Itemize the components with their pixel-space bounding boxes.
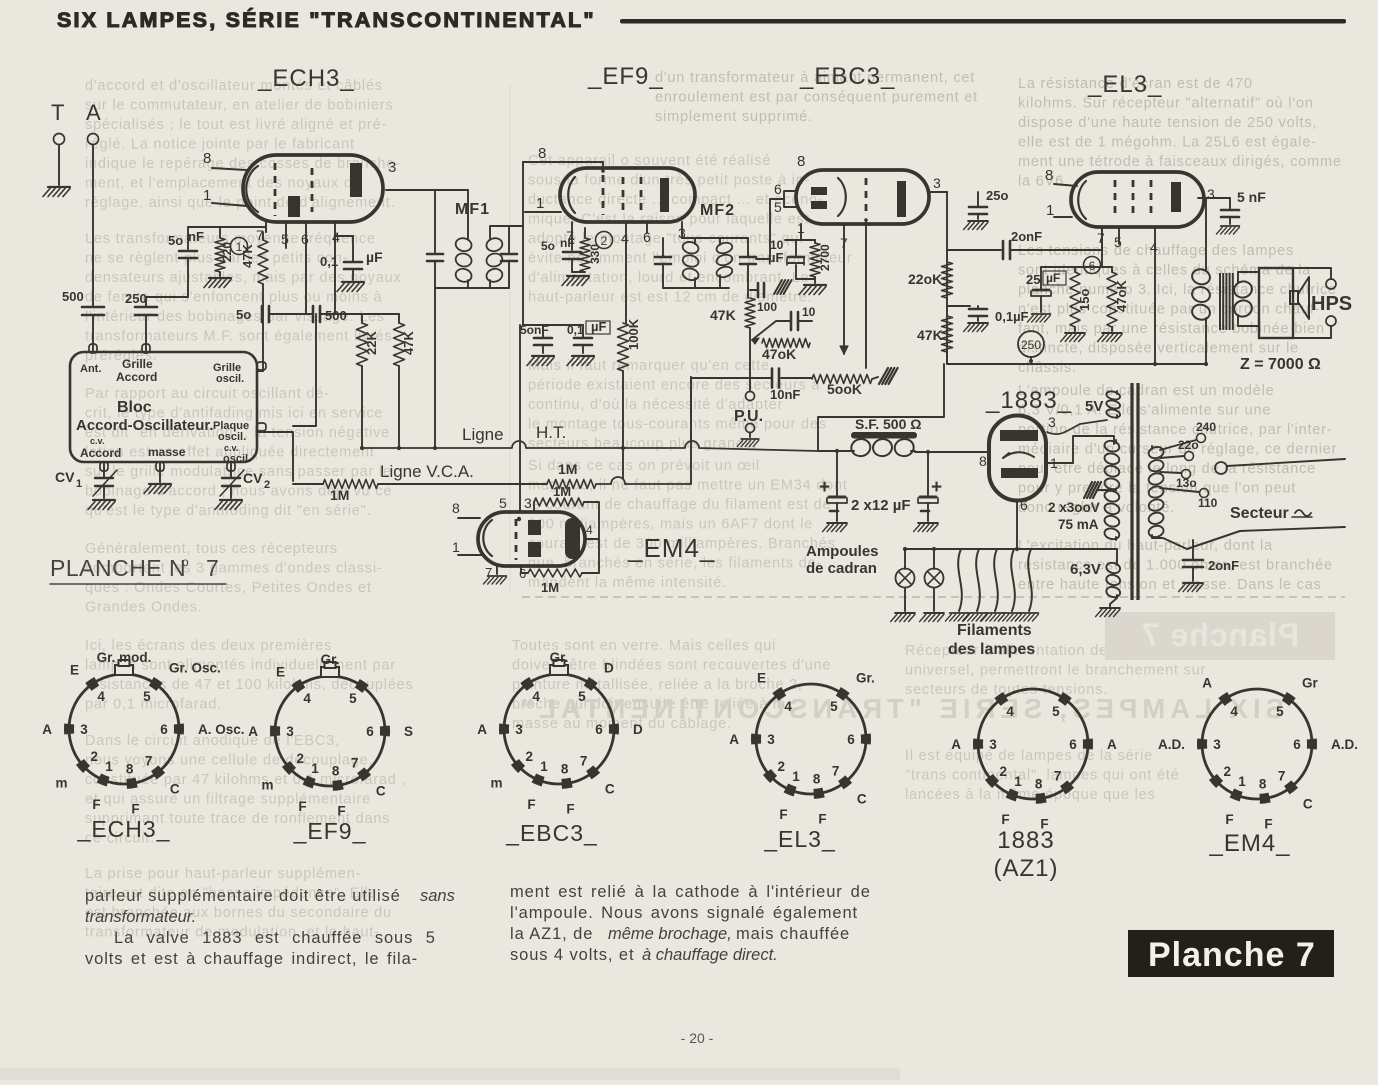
svg-text:0,1µF: 0,1µF	[995, 309, 1029, 324]
svg-text:330: 330	[588, 244, 602, 264]
wire AVC vertical	[690, 377, 692, 484]
svg-text:8: 8	[1045, 167, 1053, 184]
wire MF2 bottom	[663, 287, 729, 289]
svg-text:parleur supplémentaire doit êt: parleur supplémentaire doit être utilisé	[85, 887, 401, 905]
pin 3 wire to 5V winding	[1047, 420, 1107, 434]
svg-text:8: 8	[1259, 777, 1267, 792]
socket key	[115, 665, 133, 675]
mains switch	[1152, 538, 1187, 549]
resistor 470K EL3	[1107, 272, 1117, 327]
socket pin	[1284, 696, 1292, 702]
svg-text:1: 1	[452, 539, 460, 555]
pin 3 wire	[681, 222, 683, 238]
electrolytic 12uF no1	[836, 451, 838, 495]
svg-text:110: 110	[1198, 496, 1218, 510]
svg-text:0,1: 0,1	[320, 254, 338, 269]
pin 1 wire to HV winding	[1046, 436, 1114, 463]
svg-text:la 6V6.: la 6V6.	[1018, 174, 1069, 190]
svg-text:elle est de 1 mégohm. La: elle est de 1 mégohm. La 25L6 est égale-	[1018, 135, 1317, 151]
wire plaque oscil	[257, 432, 293, 481]
svg-text:S.F. 500 Ω: S.F. 500 Ω	[855, 416, 921, 432]
wire	[818, 364, 944, 451]
transformer MF2 primary coil	[694, 238, 696, 241]
svg-text:10: 10	[802, 305, 816, 319]
wire	[490, 226, 523, 237]
wire MF1 bottom	[435, 287, 509, 289]
svg-text:µF: µF	[1046, 271, 1060, 285]
svg-text:simplement supprimé.: simplement supprimé.	[655, 109, 813, 125]
svg-text:T: T	[51, 100, 64, 125]
svg-text:+: +	[819, 477, 830, 498]
ground	[1061, 333, 1085, 342]
wire	[584, 502, 599, 539]
svg-text:c.v.: c.v.	[90, 436, 104, 446]
svg-text:kilohms. Sur récepteur "altern: kilohms. Sur récepteur "alternatif" où l…	[1018, 96, 1314, 112]
socket pin	[989, 777, 996, 785]
wire	[92, 315, 94, 352]
svg-text:_ECH3_: _ECH3_	[77, 816, 171, 842]
wire ECH3 plate	[386, 189, 468, 191]
capacitor 0,1uF decoupling	[947, 305, 970, 307]
svg-text:Ant.: Ant.	[80, 363, 101, 375]
svg-text:8: 8	[332, 764, 340, 779]
svg-text:A.D.: A.D.	[1158, 737, 1185, 752]
ground	[964, 221, 988, 230]
svg-text:A: A	[86, 100, 101, 125]
svg-text:47K: 47K	[917, 327, 943, 343]
svg-text:- 20 -: - 20 -	[681, 1030, 714, 1046]
wire AVC junction	[690, 377, 692, 448]
svg-text:même brochage,: même brochage,	[608, 925, 732, 943]
grid wire EL3	[1101, 227, 1103, 250]
svg-text:_ECH3_: _ECH3_	[257, 65, 355, 92]
svg-text:des lampes: des lampes	[948, 641, 1035, 658]
ground	[1015, 613, 1038, 621]
column divider line	[509, 85, 511, 590]
socket pin	[305, 780, 314, 784]
cathode node wire	[1041, 266, 1112, 268]
socket pin	[295, 683, 303, 689]
svg-text:5: 5	[774, 199, 782, 215]
svg-text:CV: CV	[55, 469, 75, 485]
svg-text:4: 4	[1006, 704, 1014, 719]
svg-text:500: 500	[62, 289, 84, 304]
svg-text:5: 5	[349, 691, 357, 706]
socket pin	[80, 762, 87, 770]
pin 6 wire	[305, 222, 307, 313]
wire screens node	[335, 313, 399, 315]
svg-text:2: 2	[91, 749, 99, 764]
terminal P.U.	[746, 392, 755, 401]
ground	[1096, 608, 1120, 617]
svg-text:8: 8	[561, 762, 569, 777]
svg-text:2700: 2700	[818, 244, 832, 271]
svg-text:Gr.: Gr.	[856, 670, 875, 685]
svg-text:nF: nF	[560, 236, 575, 250]
socket pin	[333, 785, 343, 786]
svg-text:1M: 1M	[330, 487, 349, 503]
capacitor 100 coupling	[790, 312, 793, 330]
resistor 47K oscillator grid	[258, 240, 268, 284]
socket key	[321, 667, 339, 677]
resistor 47K diode load	[745, 298, 755, 328]
svg-text:m: m	[261, 778, 273, 793]
svg-text:1883: 1883	[997, 827, 1054, 854]
svg-text:3: 3	[933, 175, 941, 191]
svg-text:6: 6	[1089, 259, 1096, 273]
svg-text:dispose d'une haute tension: dispose d'une haute tension de 250 volts…	[1018, 115, 1317, 131]
svg-text:C: C	[857, 792, 867, 807]
svg-text:réglage, ainsi que le point de: réglage, ainsi que le point de d'alignem…	[85, 195, 395, 211]
svg-text:2: 2	[1000, 764, 1008, 779]
wire with hop	[596, 477, 691, 484]
svg-text:6: 6	[1069, 737, 1077, 752]
svg-text:CV: CV	[243, 470, 263, 486]
svg-text:6: 6	[1020, 497, 1028, 513]
svg-text:m: m	[490, 776, 502, 791]
svg-text:5: 5	[281, 231, 289, 247]
svg-text:entre haute tension et masse.: entre haute tension et masse. Dans le ca…	[1018, 577, 1322, 593]
socket circle	[756, 684, 866, 794]
svg-text:C: C	[1303, 797, 1313, 812]
svg-text:6: 6	[1293, 737, 1301, 752]
svg-text:pour y prendre la tension: pour y prendre la tension que l'on peut	[1018, 481, 1296, 497]
power transformer core	[1130, 383, 1133, 600]
socket pin	[286, 764, 293, 772]
svg-text:_EL3_: _EL3_	[1087, 71, 1162, 98]
wire	[946, 352, 948, 364]
ground	[43, 187, 70, 197]
svg-text:F: F	[92, 797, 100, 812]
svg-text:Grille: Grille	[122, 357, 153, 371]
svg-text:4: 4	[532, 689, 540, 704]
svg-text:F: F	[818, 811, 826, 826]
HV center tap ground	[1098, 489, 1116, 491]
svg-text:PLANCHE N: PLANCHE N	[50, 555, 186, 581]
svg-text:Filaments: Filaments	[957, 622, 1032, 639]
pin 8 wire	[458, 517, 480, 519]
resistor 2700	[810, 243, 820, 277]
svg-text:4: 4	[586, 523, 593, 537]
svg-text:47K: 47K	[401, 331, 416, 355]
svg-text:1: 1	[203, 187, 211, 204]
mirrored show-through headline	[516, 693, 1284, 724]
svg-text:Secteur: Secteur	[1230, 505, 1289, 522]
svg-text:masse: masse	[148, 445, 186, 459]
ground	[1216, 226, 1239, 234]
bloc terminal pins	[89, 344, 97, 353]
svg-text:5V: 5V	[1085, 398, 1103, 415]
circled 1	[231, 238, 248, 255]
svg-text:100K: 100K	[626, 318, 641, 350]
svg-text:Gr.: Gr.	[321, 652, 340, 667]
svg-text:5: 5	[1052, 704, 1060, 719]
svg-text:500: 500	[325, 308, 347, 323]
socket pin	[524, 681, 532, 687]
socket pin	[1287, 784, 1295, 790]
pin 7 wire	[571, 222, 573, 250]
svg-text:1: 1	[1014, 774, 1022, 789]
svg-text:A: A	[729, 732, 739, 747]
capacitor 10nF AVC	[771, 369, 774, 388]
wire	[320, 313, 335, 315]
svg-text:1M: 1M	[558, 461, 577, 477]
wire to output transformer	[1205, 198, 1207, 268]
transformer MF1 primary coil	[467, 190, 469, 237]
svg-text:8: 8	[797, 153, 805, 170]
filament drop wire	[994, 549, 998, 611]
svg-text:5: 5	[143, 689, 151, 704]
ground	[823, 523, 847, 532]
tube ECH3	[243, 155, 383, 222]
svg-text:D: D	[633, 722, 643, 737]
wire AVC	[691, 377, 772, 379]
potentiometer 500K	[812, 375, 872, 384]
svg-text:47K: 47K	[240, 244, 255, 268]
output transformer primary	[1190, 267, 1211, 286]
svg-text:ment, et l'emplacement d: ment, et l'emplacement des noyaux de	[85, 176, 362, 192]
svg-text:oscil.: oscil.	[218, 431, 246, 443]
svg-text:6: 6	[366, 724, 374, 739]
svg-text:1: 1	[1046, 202, 1054, 219]
svg-text:3: 3	[80, 722, 88, 737]
5V winding	[1105, 390, 1120, 401]
svg-text:_EF9_: _EF9_	[293, 818, 367, 844]
resistor 47K decoupling	[942, 316, 953, 352]
tube EL3	[1071, 172, 1204, 227]
svg-text:6: 6	[160, 722, 168, 737]
svg-text:_EF9_: _EF9_	[587, 63, 664, 90]
svg-text:F: F	[527, 797, 535, 812]
circled 6	[1084, 257, 1101, 274]
svg-text:la AZ1, de: la AZ1, de	[510, 925, 593, 943]
svg-text:E: E	[757, 670, 766, 685]
svg-text:2onF: 2onF	[1208, 558, 1239, 573]
socket pin	[1060, 696, 1068, 702]
svg-text:47oK: 47oK	[762, 346, 796, 362]
svg-text:0,1: 0,1	[567, 323, 584, 337]
ground	[337, 282, 364, 292]
svg-text:8: 8	[203, 150, 211, 167]
pin 1 wire	[458, 554, 482, 556]
svg-text:A: A	[1202, 675, 1212, 690]
svg-text:µF: µF	[366, 249, 383, 265]
socket pin	[360, 771, 368, 777]
svg-text:MF1: MF1	[455, 201, 490, 218]
svg-text:1: 1	[540, 759, 548, 774]
svg-text:240: 240	[1196, 420, 1216, 434]
socket pin	[1197, 739, 1207, 749]
wire	[434, 288, 436, 448]
wire	[92, 145, 94, 306]
svg-text:6: 6	[301, 231, 309, 247]
socket pin	[99, 778, 108, 782]
svg-text:1: 1	[792, 769, 800, 784]
svg-text:1: 1	[1238, 774, 1246, 789]
resistor 150	[1070, 272, 1080, 327]
resistor 22oK	[942, 262, 953, 298]
svg-text:ment est relié à la cathode à: ment est relié à la cathode à l'intérieu…	[510, 883, 871, 901]
schematic bottom dashed border	[522, 596, 1345, 598]
transformer MF2 secondary coil	[715, 241, 733, 255]
svg-text:HPS: HPS	[1311, 293, 1352, 315]
svg-text:100: 100	[757, 300, 777, 314]
svg-text:F: F	[1225, 812, 1233, 827]
svg-text:1: 1	[76, 478, 82, 490]
tube 1883	[989, 416, 1046, 501]
socket pin	[515, 762, 522, 770]
svg-text:4: 4	[332, 229, 340, 245]
H.T. rail from choke	[818, 450, 850, 452]
svg-text:universel, permettront le br: universel, permettront le branchement su…	[905, 663, 1206, 679]
socket pin	[998, 696, 1006, 702]
svg-text:et qui assure un filtrage: et qui assure un filtrage supplémentaire	[85, 792, 371, 808]
tube EM4	[478, 512, 585, 566]
ground	[914, 523, 938, 532]
pin 4 wire	[625, 222, 627, 323]
svg-text:m: m	[55, 776, 67, 791]
svg-text:5onF: 5onF	[520, 323, 549, 337]
header rule	[620, 19, 1346, 24]
svg-text:22o: 22o	[1178, 438, 1199, 452]
socket pin	[751, 734, 761, 744]
speaker terminals	[1293, 268, 1331, 279]
resistor 1M vca2	[547, 480, 596, 489]
capacitor MF2 primary	[662, 238, 664, 256]
svg-text:5: 5	[1276, 704, 1284, 719]
selector contact	[1215, 462, 1227, 474]
junction dots	[360, 446, 364, 450]
ground	[1098, 333, 1122, 342]
wire	[1110, 598, 1117, 608]
svg-text:(AZ1): (AZ1)	[994, 855, 1059, 882]
svg-text:Mais il faut remarquer qu': Mais il faut remarquer qu'en cette	[528, 358, 770, 374]
ground	[981, 613, 1004, 621]
svg-text:F: F	[1001, 812, 1009, 827]
svg-text:A: A	[42, 722, 52, 737]
svg-text:volts et est à chauffage indir: volts et est à chauffage indirect, le fi…	[85, 950, 418, 968]
svg-text:2 x3ooV: 2 x3ooV	[1048, 500, 1100, 515]
socket pin	[589, 769, 597, 775]
svg-text:transformateur.: transformateur.	[85, 908, 196, 926]
svg-text:25o: 25o	[986, 188, 1008, 203]
svg-text:1M: 1M	[553, 484, 571, 499]
svg-text:distincte, disposée vertic: distincte, disposée verticalement sur le	[1018, 341, 1299, 357]
svg-text:1: 1	[105, 759, 113, 774]
filament drop wire	[976, 549, 980, 611]
svg-text:47oK: 47oK	[1114, 280, 1129, 312]
electrolytic 12uF no2	[927, 452, 929, 495]
svg-text:25: 25	[1026, 272, 1040, 287]
svg-text:sur le commutateur, en atelier: sur le commutateur, en atelier de bobini…	[85, 98, 393, 114]
resistor 350	[584, 228, 586, 238]
svg-text:5: 5	[499, 495, 507, 511]
grid wire below tube	[865, 222, 867, 368]
pin 4 wire	[334, 222, 336, 313]
wire	[622, 371, 624, 448]
svg-text:A: A	[1107, 737, 1117, 752]
socket pin	[1232, 793, 1241, 797]
wire	[146, 297, 188, 307]
pin 6 wire	[520, 566, 522, 573]
svg-text:ques : Ondes Courtes, Peti: ques : Ondes Courtes, Petites Ondes et	[85, 580, 372, 596]
ground	[562, 276, 589, 286]
socket pin	[776, 691, 784, 697]
socket pin	[1213, 777, 1220, 785]
svg-text:transformateurs M.F. sont é: transformateurs M.F. sont également livr…	[85, 329, 393, 345]
wire	[749, 328, 751, 390]
resistor 470K	[762, 339, 810, 348]
socket pin	[814, 793, 824, 794]
svg-text:_EBC3_: _EBC3_	[505, 820, 598, 846]
svg-text:_1883_: _1883_	[985, 387, 1072, 414]
svg-text:3: 3	[1207, 186, 1215, 202]
svg-text:8: 8	[126, 762, 134, 777]
svg-text:8: 8	[538, 145, 546, 162]
socket pin	[380, 726, 390, 736]
ground	[204, 278, 231, 288]
long wire EF9 to EM4	[519, 325, 521, 512]
socket pin	[586, 681, 594, 687]
svg-text:fant, mais par une résista: fant, mais par une résistance bobinée bi…	[1018, 321, 1325, 337]
socket pin	[609, 724, 619, 734]
resistor 1M grid	[534, 498, 584, 506]
svg-text:SIX LAMPES, SÉRIE "TRANSCONTIN: SIX LAMPES, SÉRIE "TRANSCONTINENTAL"	[516, 693, 1284, 724]
svg-text:sans: sans	[420, 887, 455, 905]
svg-text:E: E	[70, 662, 79, 677]
svg-text:5o: 5o	[541, 239, 555, 253]
svg-text:3: 3	[1213, 737, 1221, 752]
socket key	[550, 665, 568, 675]
svg-text:75 mA: 75 mA	[1058, 517, 1099, 532]
socket pin	[1063, 784, 1071, 790]
svg-text:1M: 1M	[541, 580, 559, 595]
svg-text:5o: 5o	[168, 233, 183, 248]
svg-text:Accord-Oscillateur.: Accord-Oscillateur.	[76, 417, 214, 434]
speaker HPS	[1259, 268, 1293, 338]
svg-text:7: 7	[1278, 769, 1286, 784]
svg-text:Gr. mod.: Gr. mod.	[97, 650, 152, 665]
socket pin	[1008, 793, 1017, 797]
svg-text:Gr.: Gr.	[550, 650, 569, 665]
svg-text:réglé. La notice jointe pa: réglé. La notice jointe par le fabricant	[85, 137, 355, 153]
svg-text:A: A	[477, 722, 487, 737]
svg-text:4: 4	[621, 230, 629, 246]
svg-text:8: 8	[1035, 777, 1043, 792]
svg-text:2: 2	[264, 479, 270, 491]
svg-text:portion de la résistance chutr: portion de la résistance chutrice, par l…	[1018, 422, 1332, 438]
ground	[144, 484, 171, 494]
ground	[1179, 583, 1203, 592]
svg-text:SIX LAMPES, SÉRIE "TRANSCONTIN: SIX LAMPES, SÉRIE "TRANSCONTINENTAL"	[57, 7, 596, 32]
svg-text:spécialisés ; le tout est livr: spécialisés ; le tout est livré aligné e…	[85, 117, 387, 133]
pin 3 plate wire	[1198, 197, 1230, 199]
wire	[682, 237, 748, 239]
svg-text:sous 4 volts, et: sous 4 volts, et	[510, 946, 634, 964]
svg-text:MF2: MF2	[700, 202, 735, 219]
socket pin	[154, 769, 162, 775]
resistor 1M target	[521, 572, 528, 574]
pin 3 plate wire	[929, 191, 947, 193]
filament drop wire	[1011, 549, 1015, 611]
svg-text:5: 5	[578, 689, 586, 704]
svg-text:A: A	[248, 724, 258, 739]
svg-text:n'est plus constituée par: n'est plus constituée par un cordon chau…	[1018, 302, 1320, 318]
wire 22K	[361, 366, 363, 448]
svg-text:le courant de chauffage du fil: le courant de chauffage du filament est …	[528, 497, 831, 513]
svg-text:H.T.: H.T.	[536, 423, 566, 442]
filament drop wire	[958, 549, 962, 611]
